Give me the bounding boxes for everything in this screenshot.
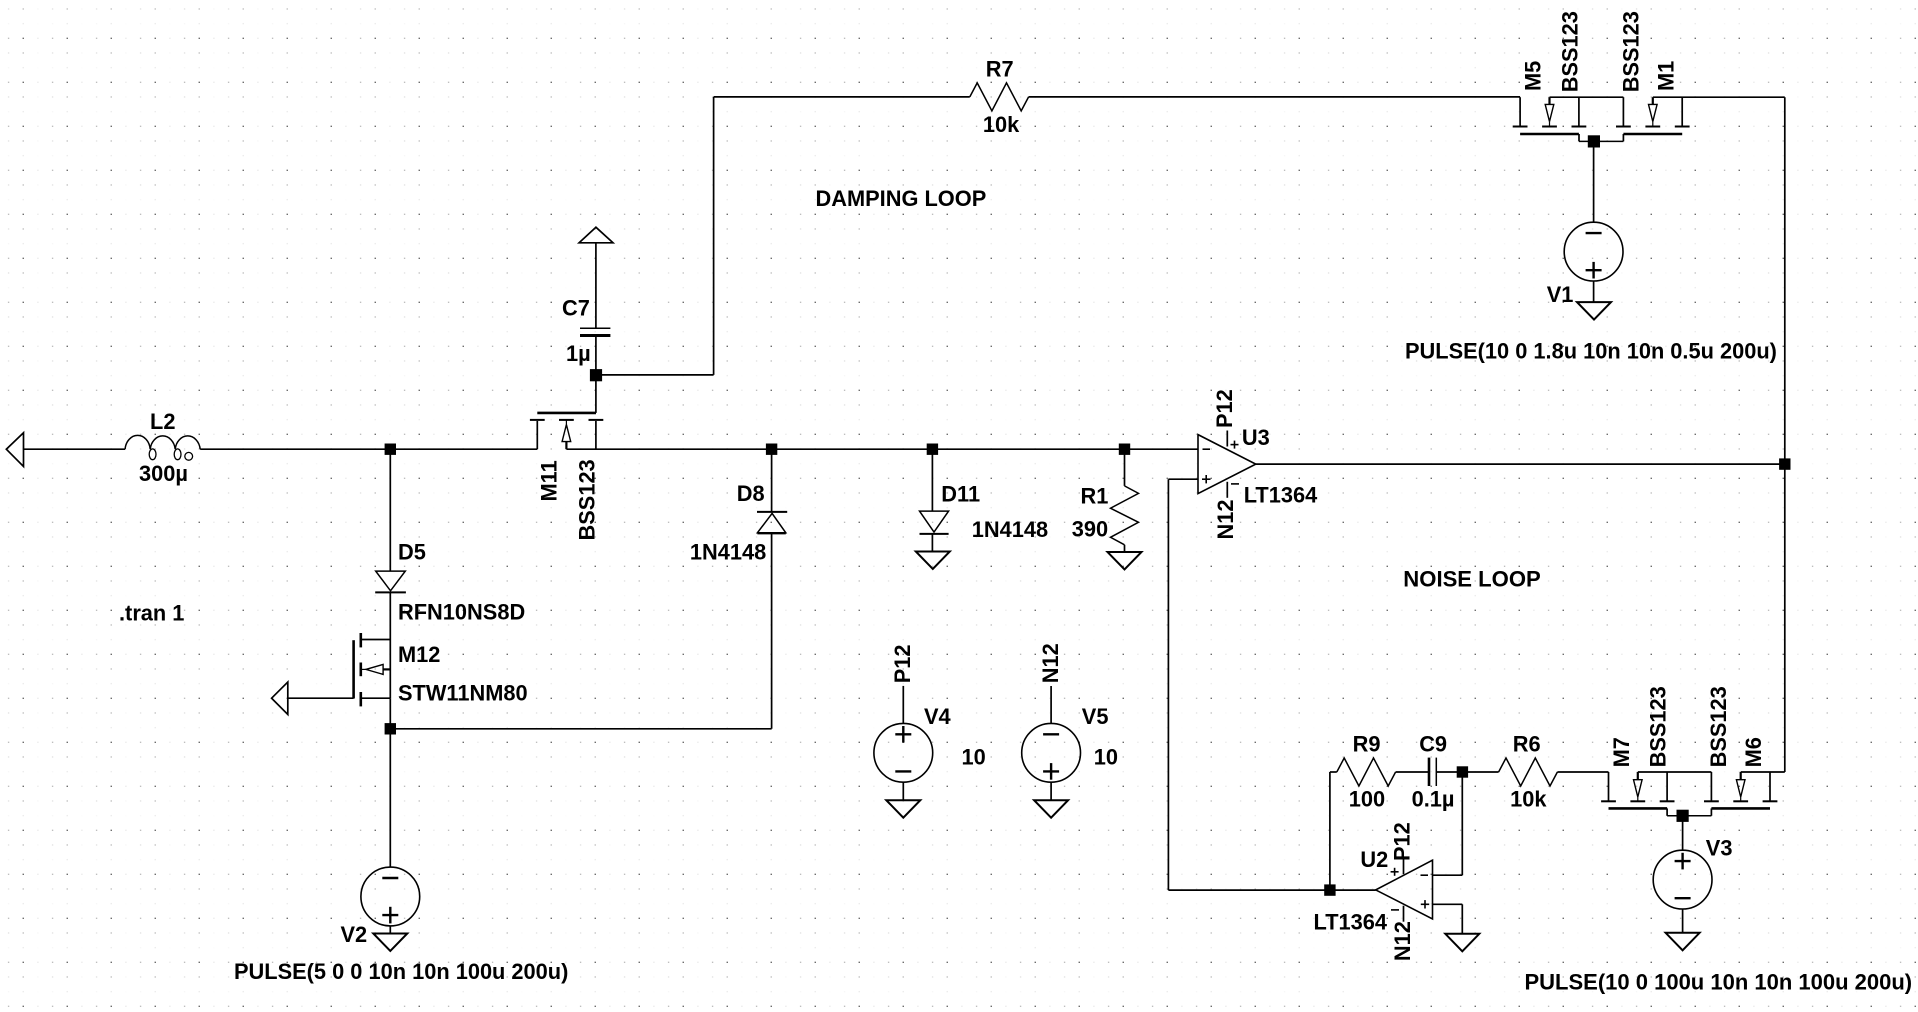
svg-text:300µ: 300µ (139, 461, 188, 486)
wire U2 minus stub (1433, 874, 1463, 876)
wire between M7 arrow and M6 source (1638, 771, 1712, 773)
wire U2 minus riser (1461, 772, 1463, 875)
wire D8 to M12 junction (390, 728, 771, 730)
wire D11 to ground (931, 534, 933, 552)
wire feedback down (1167, 479, 1169, 890)
voltage source V5 (1022, 723, 1081, 782)
wire V5 to ground (1050, 782, 1052, 800)
wire P12 to V4 (902, 686, 904, 724)
wire U2 plus stub (1433, 903, 1463, 905)
transistor M1 (BSS123) (1622, 97, 1624, 126)
wire R9 left leg (1329, 772, 1331, 890)
svg-text:V3: V3 (1706, 836, 1733, 861)
node junction bus/D11 (927, 444, 938, 455)
wire M12 source to junction (389, 698, 391, 729)
svg-text:BSS123: BSS123 (1558, 11, 1583, 92)
port flag at C7 (up arrow) (579, 227, 613, 243)
node junction bus/D5 (385, 444, 396, 455)
svg-text:L2: L2 (150, 409, 175, 434)
diode D11 (1N4148) (920, 511, 949, 532)
svg-text:R9: R9 (1353, 731, 1381, 756)
svg-text:V2: V2 (341, 922, 368, 947)
svg-text:M1: M1 (1654, 61, 1679, 91)
resistor R1 (1111, 486, 1139, 545)
svg-text:D11: D11 (941, 482, 980, 507)
voltage source V4 (874, 723, 933, 782)
wire C7 top (595, 243, 597, 328)
ground below D11 (916, 552, 950, 570)
op-amp U3 (LT1364) (1198, 435, 1256, 494)
node junction U2 out/R9 (1324, 884, 1335, 895)
wire C7 bottom to junction (595, 336, 597, 375)
voltage source V2 (361, 867, 420, 926)
svg-text:R1: R1 (1081, 483, 1109, 508)
ground below V2 (373, 934, 407, 952)
wire M12 gate (288, 697, 354, 699)
svg-text:BSS123: BSS123 (575, 459, 600, 540)
wire R1 to ground (1124, 545, 1126, 552)
wire junction to V2 (389, 729, 391, 867)
wire V3 to ground (1682, 909, 1684, 933)
inductor L2 (125, 435, 200, 449)
svg-text:NOISE LOOP: NOISE LOOP (1403, 566, 1541, 591)
svg-text:10: 10 (962, 745, 986, 770)
svg-text:BSS123: BSS123 (1646, 686, 1671, 767)
svg-text:P12: P12 (1212, 389, 1237, 428)
wire bus: L2 to M11 source (200, 448, 537, 450)
svg-text:U2: U2 (1360, 847, 1388, 872)
resistor R6 (1499, 758, 1558, 786)
svg-text:PULSE(10 0 1.8u 10n 10n 0.5u 2: PULSE(10 0 1.8u 10n 10n 0.5u 200u) (1405, 338, 1777, 363)
wire junction to R6 (1462, 771, 1498, 773)
wire D5 to M12 drain (389, 592, 391, 639)
svg-text:RFN10NS8D: RFN10NS8D (398, 599, 525, 624)
svg-text:100: 100 (1349, 786, 1385, 811)
wire bus to D8 (771, 449, 773, 511)
wire feedback across (1168, 889, 1330, 891)
port flag at M12 gate (left arrow) (272, 682, 288, 715)
wire N12 to V5 (1050, 686, 1052, 723)
wire R9 stub (1330, 771, 1337, 773)
port flag IN (left arrow) (6, 433, 23, 467)
svg-text:10k: 10k (983, 112, 1020, 137)
wire V1 to ground (1593, 281, 1595, 303)
svg-text:V1: V1 (1547, 282, 1574, 307)
svg-text:U3: U3 (1242, 425, 1270, 450)
svg-text:BSS123: BSS123 (1706, 686, 1731, 767)
diode D5 (RFN10NS8D) (376, 571, 406, 591)
wire V2 to ground (389, 926, 391, 934)
svg-text:0.1µ: 0.1µ (1412, 786, 1455, 811)
wire U3 output (1256, 463, 1785, 465)
svg-text:C9: C9 (1419, 731, 1447, 756)
ground at U2 plus input (1445, 934, 1479, 952)
wire C9 to junction (1436, 771, 1462, 773)
svg-text:LT1364: LT1364 (1244, 482, 1318, 507)
svg-text:10k: 10k (1510, 786, 1547, 811)
node junction gates/V1 (1588, 135, 1600, 147)
transistor M5 (BSS123) (1519, 97, 1521, 126)
wire M6 to right rail (1741, 771, 1785, 773)
capacitor C9 (1428, 758, 1431, 786)
wire gate bridge M5/M1 (1578, 134, 1580, 141)
ground below V4 (886, 800, 920, 818)
voltage source V3 (1653, 850, 1712, 909)
resistor R7 (970, 83, 1029, 111)
wire U2 plus to ground (1461, 904, 1463, 934)
transistor M11 (BSS123, horizontal) (537, 412, 596, 415)
node junction gates/V3 (1677, 810, 1689, 822)
node junction bus/R1 (1119, 444, 1130, 455)
wire U3 plus input stub (1168, 478, 1198, 480)
wire bus: arrow to L2 (24, 448, 126, 450)
wire R7 to M5 (1029, 96, 1521, 98)
wire R7 riser (vertical) (713, 97, 715, 375)
wire bus junction to D5 (389, 449, 391, 571)
svg-text:BSS123: BSS123 (1619, 11, 1644, 92)
svg-text:N12: N12 (1213, 500, 1238, 540)
ground below V3 (1666, 933, 1700, 951)
wire bus to R1 (1124, 449, 1126, 486)
transistor M6 (BSS123) (1710, 772, 1712, 801)
wire bus: M11 drain to U3 minus input (566, 448, 1198, 450)
svg-text:DAMPING LOOP: DAMPING LOOP (816, 186, 987, 211)
ground below V1 (1577, 302, 1611, 320)
svg-text:V5: V5 (1082, 704, 1109, 729)
svg-text:D5: D5 (398, 539, 426, 564)
svg-text:1N4148: 1N4148 (690, 539, 766, 564)
svg-text:N12: N12 (1390, 921, 1415, 961)
svg-text:390: 390 (1072, 517, 1108, 542)
svg-text:D8: D8 (737, 481, 765, 506)
transistor M7 (BSS123) (1608, 772, 1610, 801)
svg-text:P12: P12 (890, 645, 915, 684)
svg-text:P12: P12 (1390, 822, 1415, 861)
node junction C9/R6/U2 minus (1457, 766, 1468, 777)
wire gates to V3 (1682, 816, 1684, 850)
svg-text:C7: C7 (562, 296, 590, 321)
svg-text:N12: N12 (1038, 643, 1063, 683)
resistor R9 (1337, 758, 1396, 786)
wire M1 to right rail (1653, 96, 1785, 98)
svg-text:PULSE(5 0 0 10n 10n 100u 200u): PULSE(5 0 0 10n 10n 100u 200u) (234, 959, 568, 984)
voltage source V1 (1564, 222, 1623, 281)
svg-text:1µ: 1µ (566, 341, 591, 366)
svg-text:STW11NM80: STW11NM80 (398, 680, 528, 705)
node junction C7/R7/M11 gate (590, 369, 602, 381)
svg-text:M7: M7 (1609, 737, 1634, 767)
svg-text:M12: M12 (398, 642, 440, 667)
svg-text:R6: R6 (1513, 731, 1541, 756)
svg-text:LT1364: LT1364 (1314, 910, 1388, 935)
wire bus to D11 (931, 449, 933, 511)
svg-text:10: 10 (1094, 745, 1118, 770)
wire gate bridge M7/M6 (1666, 808, 1668, 815)
svg-text:1N4148: 1N4148 (972, 517, 1048, 542)
wire between M5 arrow and M1 source (1550, 96, 1624, 98)
svg-text:M5: M5 (1521, 61, 1546, 91)
ground below V5 (1034, 800, 1068, 818)
wire D8 down (771, 533, 773, 728)
wire right rail (vertical) (1784, 97, 1786, 772)
wire R6 to M7 (1557, 771, 1608, 773)
node junction M12/V2/D8 (385, 723, 396, 734)
wire junction to U2 input (1330, 889, 1376, 891)
diode D8 (1N4148) (757, 511, 787, 513)
ground below R1 (1108, 552, 1142, 570)
wire junction to R7 riser (596, 374, 714, 376)
op-amp U2 (LT1364, mirrored) (1376, 860, 1433, 919)
svg-text:R7: R7 (986, 57, 1014, 82)
svg-text:V4: V4 (924, 704, 951, 729)
svg-text:M11: M11 (537, 460, 562, 501)
transistor M12 (STW11NM80) (352, 640, 355, 698)
wire to R7 (714, 96, 970, 98)
capacitor C7 (580, 327, 610, 329)
wire gates to V1 (1593, 141, 1595, 222)
wire V4 to ground (902, 782, 904, 800)
svg-text:.tran 1: .tran 1 (119, 601, 184, 626)
svg-text:M6: M6 (1741, 737, 1766, 767)
svg-text:PULSE(10 0 100u 10n 10n 100u 2: PULSE(10 0 100u 10n 10n 100u 200u) (1525, 970, 1913, 995)
wire R9 to C9 (1396, 771, 1429, 773)
node junction U3 output/rail (1779, 458, 1790, 469)
node junction bus/D8 (766, 444, 777, 455)
